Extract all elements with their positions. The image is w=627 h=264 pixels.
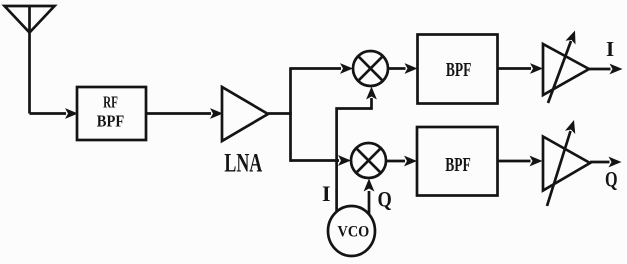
amplifier VGA2	[543, 137, 590, 191]
wire LNA to branch node	[268, 112, 292, 115]
svg-text:LNA: LNA	[224, 149, 262, 178]
wire branch to mixer2	[291, 159, 340, 162]
svg-text:RF: RF	[103, 93, 118, 112]
oscillator VCO	[328, 206, 375, 256]
svg-text:Q: Q	[605, 167, 618, 192]
svg-text:BPF: BPF	[97, 112, 124, 131]
mixer M2	[351, 143, 386, 178]
wire antenna stem	[28, 6, 31, 114]
svg-text:Q: Q	[378, 187, 392, 212]
wire BPF2 to VGA2	[498, 160, 531, 163]
antenna	[5, 6, 55, 33]
wire VCO Q feed	[368, 191, 371, 215]
wire VGA2 output Q	[590, 161, 610, 164]
wire VCO I feed	[337, 98, 372, 211]
amplifier VGA1	[543, 44, 589, 95]
filter BPF2	[417, 127, 498, 196]
VGA1 gain arrow	[548, 41, 571, 103]
wire branch to mixer1	[291, 67, 342, 70]
wire RF BPF to LNA	[146, 112, 211, 115]
wire mixer1 to BPF1	[388, 67, 406, 70]
svg-text:BPF: BPF	[446, 59, 472, 81]
svg-text:I: I	[606, 37, 614, 61]
wire mixer2 to BPF2	[386, 160, 405, 163]
svg-text:I: I	[322, 181, 331, 206]
wire antenna to RF BPF	[30, 112, 67, 115]
filter RF BPF	[77, 87, 146, 140]
VGA2 gain arrow	[547, 131, 571, 206]
mixer M1	[353, 51, 388, 86]
op-amp LNA	[222, 87, 268, 141]
filter BPF1	[418, 35, 498, 104]
svg-text:BPF: BPF	[445, 154, 471, 176]
svg-text:VCO: VCO	[338, 223, 370, 240]
wire VGA1 output I	[589, 68, 611, 71]
wire BPF1 to VGA1	[498, 67, 532, 70]
wire branch vertical	[289, 67, 292, 162]
